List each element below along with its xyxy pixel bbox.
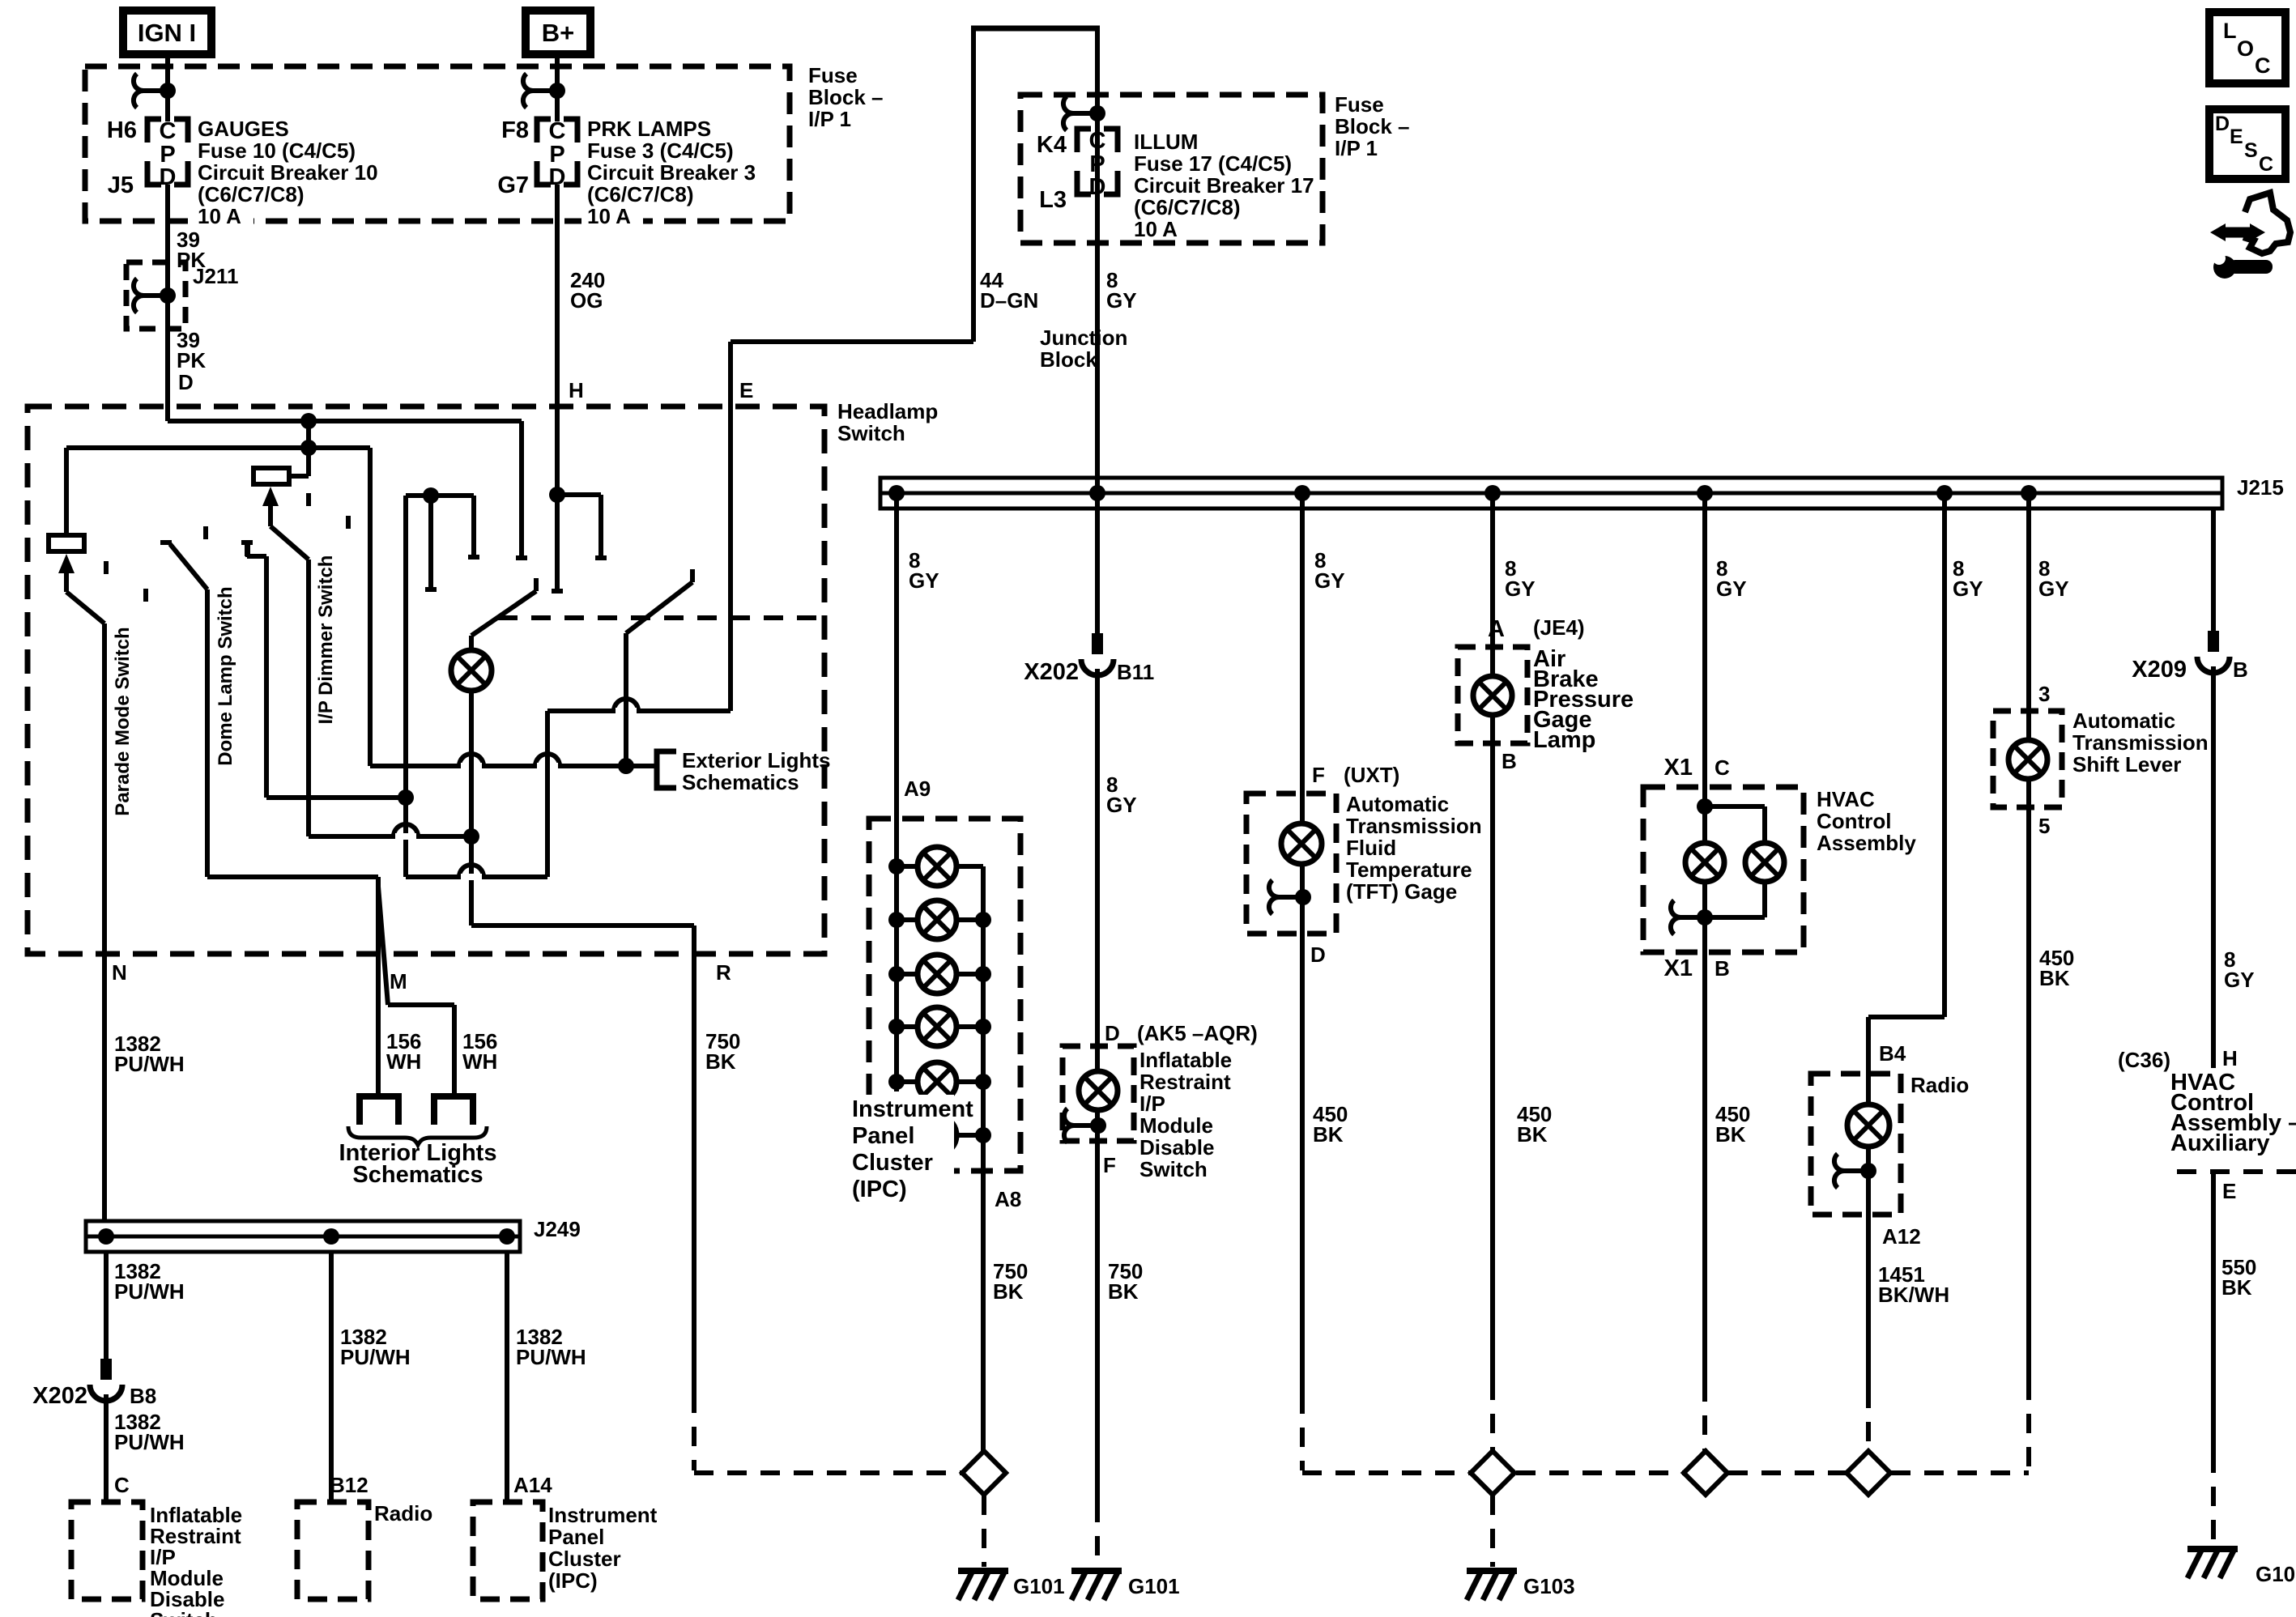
svg-text:Radio: Radio [1910, 1073, 1969, 1097]
svg-text:BK: BK [1108, 1279, 1139, 1304]
HVAC dashed box [1643, 787, 1804, 952]
svg-text:PU/WH: PU/WH [114, 1430, 185, 1454]
svg-text:PU/WH: PU/WH [516, 1345, 586, 1369]
svg-text:GY: GY [1505, 577, 1536, 601]
wire in TFT box [1300, 794, 1305, 934]
wire to dimmer terminal [289, 474, 309, 479]
svg-text:I/P 1: I/P 1 [1335, 136, 1378, 160]
right switch arm [626, 569, 692, 633]
linkage tick 4 [245, 544, 250, 557]
wire B+ contact drop [552, 591, 563, 594]
label Radio (bottom) [374, 1501, 432, 1526]
svg-text:Circuit Breaker 10: Circuit Breaker 10 [198, 160, 378, 185]
junction dot dimmer branch [398, 789, 414, 806]
wire to ground G101 b [1095, 1503, 1100, 1567]
pin J5 [108, 172, 134, 198]
power feed B+ [526, 11, 590, 54]
pin D TFT [1310, 943, 1326, 967]
white backing 10A prk [581, 203, 643, 231]
IPC bottom dashed box [473, 1502, 543, 1599]
wire D feed across [168, 419, 522, 423]
pin B X209 [2233, 657, 2248, 682]
wire IGN I to fuse H6 [165, 54, 170, 121]
label Inflatable Restraint module [1139, 1048, 1232, 1181]
connector X202 B11 [1081, 633, 1114, 675]
svg-text:Transmission: Transmission [2072, 730, 2209, 755]
shift lever lamp [2008, 740, 2047, 779]
svg-text:(C36): (C36) [2118, 1048, 2170, 1072]
svg-text:Junction: Junction [1040, 326, 1127, 350]
pin B12 [330, 1473, 368, 1497]
air brake lamp [1473, 676, 1512, 715]
svg-text:J249: J249 [534, 1217, 581, 1241]
label AK5-AQR [1137, 1021, 1258, 1045]
wire 8 GY junction block [1095, 28, 1100, 493]
HVAC lamp 2 [1745, 843, 1784, 882]
label 750 BK IPC [993, 1259, 1028, 1304]
label 240 OG [570, 268, 605, 313]
wire 44 D-GN up [971, 26, 976, 342]
svg-text:L3: L3 [1039, 187, 1067, 213]
parade terminal [49, 535, 84, 551]
label G102 [2256, 1562, 2296, 1586]
pin X1 B [1664, 955, 1730, 981]
svg-text:D: D [1089, 174, 1106, 200]
label 1451 BK/WH [1878, 1262, 1949, 1307]
illumination lamp headlamp switch [451, 650, 492, 691]
svg-text:Panel: Panel [852, 1123, 914, 1149]
IPC lamp 6 [918, 1116, 956, 1155]
connector X209 B [2197, 631, 2230, 673]
svg-text:B+: B+ [542, 19, 575, 47]
junction dot center bank [423, 487, 439, 504]
wire B+ to fuse F8 [555, 54, 560, 121]
fuse cavity bracket F8/G7 [537, 119, 577, 185]
svg-text:GY: GY [2224, 968, 2255, 992]
svg-text:PU/WH: PU/WH [114, 1279, 185, 1304]
label I/P Dimmer Switch [315, 555, 337, 725]
disable switch lamp [1079, 1071, 1118, 1110]
label X209 [2132, 657, 2187, 683]
connector J211 dashed box [126, 262, 185, 329]
wire to ground G102 [2211, 1453, 2216, 1545]
HVAC branch [1705, 806, 1765, 843]
pin B8 [130, 1384, 156, 1408]
pin G7 [497, 172, 529, 198]
svg-text:B: B [2233, 657, 2248, 682]
pin L3 [1039, 187, 1067, 213]
wire parade feed [66, 445, 370, 450]
svg-text:F8: F8 [501, 117, 529, 143]
pin B4 [1879, 1041, 1906, 1066]
svg-text:(IPC): (IPC) [852, 1177, 907, 1202]
svg-text:(C6/C7/C8): (C6/C7/C8) [587, 182, 693, 206]
label Dome Lamp Switch [215, 586, 236, 765]
junction dot J249 b [323, 1228, 339, 1245]
svg-text:Circuit Breaker 3: Circuit Breaker 3 [587, 160, 756, 185]
wire 750 BK disable [1095, 1141, 1100, 1503]
wire 450 BK shift lever [2026, 807, 2031, 1381]
wire below HVAC lamps [1705, 882, 1765, 952]
wire exterior lights feed [370, 764, 657, 768]
dome switch arm [160, 543, 207, 589]
wire 450 BK HVAC [1702, 952, 1707, 1382]
pin E HVAC aux [2222, 1179, 2236, 1203]
wire center bank feed [403, 496, 408, 877]
wire to radio B12 [329, 1252, 334, 1502]
svg-text:HVAC: HVAC [1817, 787, 1875, 811]
svg-text:(TFT) Gage: (TFT) Gage [1346, 879, 1457, 904]
wire radio jog [1868, 1017, 1945, 1074]
circuit breaker 17 hook K4 [1063, 96, 1105, 130]
svg-text:S: S [2244, 139, 2258, 162]
wire junction to X202 [1089, 485, 1105, 633]
label 1382 PU/WH (A14) [516, 1325, 586, 1369]
svg-text:F: F [1103, 1153, 1116, 1177]
wire 240 OG [555, 185, 560, 594]
ground G101 a [958, 1571, 1008, 1600]
wire R out [471, 926, 694, 1394]
service icon arrow [2210, 223, 2265, 241]
svg-text:IGN I: IGN I [138, 19, 196, 47]
svg-text:Fuse 10 (C4/C5): Fuse 10 (C4/C5) [198, 138, 356, 163]
wire parade drop [64, 448, 69, 535]
svg-text:Fuse: Fuse [808, 63, 858, 87]
label Exterior Lights Schematics [682, 748, 830, 794]
splice diamond G101 net [962, 1451, 1006, 1495]
svg-text:D: D [178, 370, 194, 394]
svg-text:Exterior Lights: Exterior Lights [682, 748, 830, 772]
pin E [739, 378, 753, 402]
wire HVAC inside [1697, 789, 1713, 843]
svg-text:X202: X202 [1024, 659, 1079, 685]
wire lamp in disable box [1095, 1046, 1100, 1141]
svg-text:B11: B11 [1117, 660, 1154, 684]
svg-text:A: A [1488, 616, 1505, 642]
label Air Brake Pressure Gage Lamp [1533, 646, 1634, 753]
wire E to junction block [731, 339, 973, 344]
hop right bank over pivot [614, 699, 638, 714]
svg-text:Parade Mode Switch: Parade Mode Switch [112, 627, 134, 815]
label 550 BK [2221, 1255, 2256, 1300]
wire below J249 left [104, 1252, 109, 1359]
wire fuse J5 down [165, 185, 170, 421]
svg-text:Fluid: Fluid [1346, 836, 1396, 860]
power feed IGN I [123, 11, 211, 54]
wire lamp down [469, 690, 474, 926]
wire in shift box [2026, 711, 2031, 807]
breaker hook in J211 [134, 279, 176, 313]
label HVAC Control Assembly [1817, 787, 1916, 855]
pin C disable bottom [114, 1473, 130, 1497]
linkage tick 1 [104, 561, 109, 574]
wire 450 BK TFT [1300, 934, 1305, 1394]
hop over center wire [535, 754, 560, 769]
contact stub from D [516, 421, 527, 558]
label Parade Mode Switch [112, 627, 134, 815]
shift lever dashed box [1993, 711, 2062, 807]
splice diamond G103 net b [1684, 1451, 1727, 1495]
radio lamp [1847, 1104, 1889, 1147]
svg-text:H6: H6 [107, 117, 137, 143]
svg-text:F: F [1312, 763, 1325, 787]
service icon outline [2243, 193, 2290, 253]
svg-text:BK: BK [2221, 1275, 2252, 1300]
label JE4 [1533, 615, 1585, 640]
wire to ground G101 a [982, 1496, 986, 1567]
svg-text:PK: PK [177, 348, 206, 372]
connector X202 B8 [90, 1359, 122, 1401]
junction dot exterior feed [618, 758, 634, 774]
label Junction Block [1040, 326, 1127, 372]
svg-text:N: N [112, 960, 127, 985]
splice diamond G103 net a [1471, 1451, 1514, 1495]
svg-text:(C6/C7/C8): (C6/C7/C8) [198, 182, 304, 206]
svg-text:B12: B12 [330, 1473, 368, 1497]
svg-text:Automatic: Automatic [2072, 709, 2175, 733]
wire air brake dashed to splice [1490, 1381, 1495, 1451]
label 8 GY junction [1106, 268, 1137, 313]
wire dome drop [205, 589, 210, 877]
pin D disable [1105, 1021, 1120, 1045]
pin 3 [2038, 682, 2050, 706]
label Automatic Transmission Fluid Temperature [1346, 792, 1482, 904]
wire radio dashed to splice [1866, 1389, 1871, 1451]
circuit breaker 3 hook F8 [523, 74, 565, 108]
label Radio (top) [1910, 1073, 1969, 1097]
headlamp lamp arm [471, 578, 536, 651]
svg-text:Inflatable: Inflatable [1139, 1048, 1232, 1072]
svg-text:J215: J215 [2237, 475, 2284, 500]
label Headlamp Switch [837, 399, 938, 445]
wire 8 GY to air brake [1485, 485, 1501, 647]
svg-text:WH: WH [386, 1049, 421, 1074]
svg-text:H: H [2222, 1046, 2238, 1070]
svg-text:G101: G101 [1013, 1574, 1065, 1598]
wire to disable switch C [104, 1394, 109, 1502]
svg-text:G102: G102 [2256, 1562, 2296, 1586]
wire right arm pivot [624, 633, 628, 766]
label 8 GY radio [1953, 556, 1983, 601]
svg-text:H: H [569, 378, 584, 402]
svg-text:A14: A14 [513, 1473, 552, 1497]
LOC box [2209, 12, 2285, 83]
IPC lamp 3 [918, 955, 956, 994]
wire 1451 BK/WH [1866, 1215, 1871, 1389]
junction dot D feed [300, 413, 317, 429]
IPC lamp 5 [918, 1062, 956, 1101]
svg-text:10 A: 10 A [587, 204, 631, 228]
pin A air brake [1488, 616, 1505, 642]
hop over lamp wire [459, 754, 483, 769]
svg-text:GY: GY [1106, 288, 1137, 313]
disable switch bottom dashed box [71, 1502, 143, 1599]
pin F TFT [1312, 763, 1325, 787]
svg-text:D: D [2215, 113, 2230, 135]
svg-text:BK/WH: BK/WH [1878, 1283, 1949, 1307]
label GAUGES fuse 10 [198, 117, 378, 228]
svg-text:Schematics: Schematics [682, 770, 799, 794]
label J215 [2237, 475, 2284, 500]
fuse 3 letters CPD [549, 118, 566, 190]
label 8 GY IPC [909, 548, 939, 593]
svg-text:X1: X1 [1664, 755, 1693, 781]
contact stub center 1 [425, 496, 437, 589]
pin F disable [1103, 1153, 1116, 1177]
label UXT [1344, 763, 1399, 787]
parade switch arm [58, 554, 104, 623]
svg-text:GY: GY [1716, 577, 1747, 601]
label IPC white bg [849, 1095, 954, 1200]
pin B11 [1117, 660, 1154, 684]
wire shift lever dashed [2026, 1381, 2031, 1473]
junction dot J249 a [98, 1228, 114, 1245]
svg-text:5: 5 [2038, 814, 2050, 838]
wire 8 GY to disable switch [1095, 669, 1100, 1046]
pin A12 [1882, 1224, 1921, 1249]
label 1382 PU/WH (B8) [114, 1259, 185, 1304]
label 1382 PU/WH (B12) [340, 1325, 411, 1369]
fuse cavity bracket K4/L3 [1077, 129, 1118, 194]
wire dimmer feed drop [306, 421, 311, 476]
svg-text:Cluster: Cluster [852, 1150, 933, 1176]
radio bottom dashed box [297, 1502, 368, 1599]
fuse block I/P 1 dashed box (right) [1020, 95, 1323, 243]
svg-text:L: L [2223, 19, 2237, 43]
svg-text:Restraint: Restraint [1139, 1070, 1231, 1094]
svg-text:C: C [1715, 755, 1730, 780]
label J211 [193, 264, 238, 288]
fuse 10 letters CPD [160, 118, 177, 190]
label Automatic Transmission Shift Lever [2072, 709, 2209, 777]
svg-text:D: D [1105, 1021, 1120, 1045]
svg-text:OG: OG [570, 288, 603, 313]
svg-text:C: C [2255, 53, 2271, 78]
pin H6 [107, 117, 137, 143]
svg-text:J5: J5 [108, 172, 134, 198]
wire in air brake box [1490, 647, 1495, 743]
label 8 GY TFT [1314, 548, 1345, 593]
svg-text:ILLUM: ILLUM [1134, 130, 1198, 154]
svg-text:BK: BK [2039, 966, 2070, 990]
svg-text:GY: GY [2038, 577, 2069, 601]
svg-text:Block –: Block – [1335, 114, 1410, 138]
interior lights connector a [360, 1096, 398, 1125]
IPC lamp rail left [888, 858, 918, 1090]
svg-text:M: M [390, 969, 407, 994]
svg-text:E: E [739, 378, 753, 402]
link lamp to center [309, 834, 471, 839]
case hook radio [1834, 1154, 1876, 1188]
svg-text:C: C [1089, 128, 1106, 154]
label 8 GY disable [1106, 772, 1137, 817]
svg-text:R: R [716, 960, 731, 985]
case hook disable switch [1064, 1108, 1106, 1143]
svg-text:Fuse 3 (C4/C5): Fuse 3 (C4/C5) [587, 138, 734, 163]
linkage tick 2 [143, 589, 148, 602]
DESC box [2209, 109, 2285, 179]
svg-text:Control: Control [1817, 809, 1891, 833]
svg-text:Schematics: Schematics [352, 1162, 483, 1188]
svg-text:K4: K4 [1037, 132, 1067, 158]
svg-text:Automatic: Automatic [1346, 792, 1449, 816]
svg-text:Block –: Block – [808, 85, 884, 109]
IPC lamp 1 [918, 847, 956, 886]
label HVAC Control Assembly Auxiliary [2170, 1070, 2296, 1156]
case hook HVAC [1671, 900, 1713, 934]
wire 8 GY to HVAC [1697, 485, 1713, 789]
svg-text:GY: GY [1314, 568, 1345, 593]
label 8 GY air brake [1505, 556, 1536, 601]
wire M diagonal branch [378, 887, 454, 1096]
svg-text:Circuit Breaker 17: Circuit Breaker 17 [1134, 173, 1314, 198]
TFT dashed box [1246, 794, 1336, 934]
pin R [716, 960, 731, 985]
svg-text:(IPC): (IPC) [548, 1568, 598, 1593]
svg-text:Block: Block [1040, 347, 1097, 372]
wire 8 GY to TFT [1294, 485, 1310, 794]
svg-text:GY: GY [1953, 577, 1983, 601]
svg-text:Instrument: Instrument [548, 1503, 658, 1527]
pin N [112, 960, 127, 985]
label J249 [534, 1217, 581, 1241]
svg-text:X202: X202 [32, 1383, 87, 1409]
svg-text:10 A: 10 A [1134, 217, 1178, 241]
wire parade bank drop [368, 448, 373, 766]
pin H [569, 378, 584, 402]
label Inflatable Restraint module bottom [150, 1503, 242, 1617]
svg-text:G7: G7 [497, 172, 529, 198]
disable switch dashed box [1063, 1046, 1134, 1141]
radio dashed box [1811, 1074, 1901, 1215]
wire 8 GY HVAC aux [2211, 666, 2216, 1068]
svg-text:GAUGES: GAUGES [198, 117, 289, 141]
ground G103 [1467, 1571, 1517, 1600]
label 450 BK air brake [1517, 1102, 1552, 1147]
label 8 GY HVAC [1716, 556, 1747, 601]
svg-text:Panel: Panel [548, 1525, 604, 1549]
svg-text:I/P 1: I/P 1 [808, 107, 851, 131]
IPC lamp 2 [918, 900, 956, 939]
label X202 (bottom) [32, 1383, 87, 1409]
svg-text:Dome Lamp Switch: Dome Lamp Switch [215, 586, 236, 765]
label 156 WH a [386, 1029, 421, 1074]
svg-text:Fuse 17 (C4/C5): Fuse 17 (C4/C5) [1134, 151, 1292, 176]
wire top jog [971, 26, 1100, 32]
svg-text:Assembly: Assembly [1817, 831, 1916, 855]
pin A14 [513, 1473, 552, 1497]
air brake dashed box [1458, 647, 1527, 743]
svg-text:Temperature: Temperature [1346, 857, 1472, 882]
IPC lamp 4 [918, 1007, 956, 1046]
TFT lamp [1281, 823, 1322, 864]
label Fuse Block - I/P 1 (left) [808, 63, 884, 131]
svg-text:Switch: Switch [150, 1608, 218, 1617]
svg-text:I/P Dimmer Switch: I/P Dimmer Switch [315, 555, 337, 725]
wire bus end to X209 [2211, 509, 2216, 631]
svg-text:GY: GY [909, 568, 939, 593]
wire R dashed down [692, 1394, 696, 1470]
label 750 BK (R) [705, 1029, 740, 1074]
svg-text:A8: A8 [995, 1187, 1021, 1211]
label 450 BK HVAC [1715, 1102, 1750, 1147]
svg-text:Module: Module [1139, 1113, 1213, 1138]
wire 550 BK [2211, 1172, 2216, 1453]
wire HVAC dashed to splice [1702, 1382, 1707, 1451]
svg-text:(UXT): (UXT) [1344, 763, 1399, 787]
hop lower link over lamp wire [459, 865, 483, 880]
wire 750 BK IPC [981, 1171, 986, 1452]
